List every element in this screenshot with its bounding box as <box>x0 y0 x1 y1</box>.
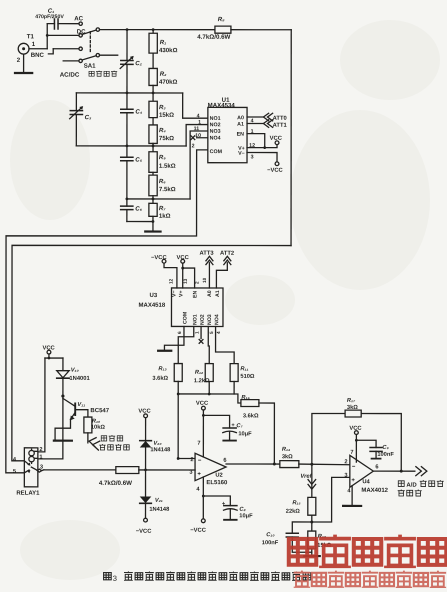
label AC/DC coupling switch <box>60 71 117 79</box>
svg-text:NO4: NO4 <box>214 314 220 325</box>
svg-text:R₃: R₃ <box>159 104 166 111</box>
svg-text:BC547: BC547 <box>90 408 109 414</box>
wire U1 V- to -VCC <box>247 153 277 162</box>
svg-text:U3: U3 <box>149 293 157 299</box>
node pin4/C8 <box>202 495 205 498</box>
resistor R2 <box>149 68 157 93</box>
svg-text:3kΩ: 3kΩ <box>347 405 358 411</box>
wire U1 EN to VCC <box>247 134 265 148</box>
svg-text:R₆: R₆ <box>159 178 166 185</box>
resistor R8 <box>215 26 291 33</box>
svg-text:V+: V+ <box>178 290 184 297</box>
svg-text:T1: T1 <box>27 33 35 40</box>
U1 pin names <box>210 115 245 157</box>
svg-text:ATT3: ATT3 <box>200 251 215 257</box>
wire U3 NO4 to R11 <box>216 326 235 363</box>
svg-text:3.6kΩ: 3.6kΩ <box>152 376 168 382</box>
wire VCC to U3 EN <box>183 268 195 288</box>
watermark big red text <box>289 535 446 567</box>
svg-text:430kΩ: 430kΩ <box>159 47 178 54</box>
node rail2-ladder <box>152 145 155 148</box>
power VCC (U2 pin 7) <box>201 406 205 457</box>
wire inverting input (U2 pin 2) <box>178 394 195 459</box>
capacitor C10 <box>286 522 312 552</box>
svg-text:C₁₀: C₁₀ <box>266 532 275 538</box>
ground (ladder) <box>145 222 160 232</box>
svg-text:V₁₀: V₁₀ <box>71 367 80 373</box>
svg-text:A1: A1 <box>215 290 221 297</box>
svg-text:EN: EN <box>237 132 245 138</box>
svg-text:U4: U4 <box>362 479 370 485</box>
svg-text:R₂: R₂ <box>160 71 167 78</box>
svg-text:NO2: NO2 <box>200 314 206 325</box>
svg-text:MAX4518: MAX4518 <box>138 303 165 309</box>
caption figure 3 <box>104 572 311 583</box>
power -VCC (U2 pin 4) <box>201 519 205 523</box>
node rail-R13 <box>177 393 180 396</box>
relay contacts <box>24 461 38 473</box>
svg-text:1: 1 <box>251 129 254 135</box>
resistor R15 <box>308 497 316 515</box>
wire U1 A0 to ATT0 <box>247 113 273 121</box>
svg-text:V−: V− <box>238 151 245 157</box>
capacitor C8 <box>203 496 237 520</box>
svg-text:1.5kΩ: 1.5kΩ <box>159 163 176 170</box>
svg-text:4: 4 <box>216 331 221 334</box>
svg-text:10μF: 10μF <box>239 513 253 519</box>
wire U1 A1 to ATT1 <box>247 120 273 128</box>
wire relay coil pin 1 riser <box>38 396 63 459</box>
svg-text:C₆: C₆ <box>135 206 142 213</box>
connector T1 BNC <box>18 43 29 54</box>
svg-text:22kΩ: 22kΩ <box>286 509 300 515</box>
label relay control signal <box>100 435 130 450</box>
wire relay coil pin 2 riser <box>38 358 45 452</box>
relay coil <box>29 449 38 463</box>
svg-text:NO3: NO3 <box>207 314 213 325</box>
wire R15 to junction <box>311 515 313 522</box>
wire COM bus (outer) <box>6 150 208 473</box>
svg-text:3kΩ: 3kΩ <box>282 454 293 460</box>
node R14/R17/Vref <box>310 463 313 466</box>
svg-text:R₁₅: R₁₅ <box>292 500 301 506</box>
wire gain rail <box>178 381 241 403</box>
svg-text:6: 6 <box>223 458 226 464</box>
wire rail R4/R5 junction <box>76 145 186 147</box>
svg-text:R₁₁: R₁₁ <box>240 366 248 372</box>
capacitor C3 (variable) <box>70 93 84 146</box>
svg-text:RELAY1: RELAY1 <box>16 491 40 497</box>
node rail3-caps <box>125 198 128 201</box>
capacitor C2 (variable) <box>120 30 134 69</box>
svg-text:A/D: A/D <box>406 483 417 489</box>
svg-text:3.6kΩ: 3.6kΩ <box>243 413 259 419</box>
transistor VT1 BC547 <box>55 398 75 439</box>
svg-text:NO3: NO3 <box>210 129 221 135</box>
svg-text:15kΩ: 15kΩ <box>159 112 174 119</box>
power -VCC (U3) <box>162 259 166 263</box>
wire U2 output <box>226 463 280 465</box>
node rail1-ladder <box>152 92 155 95</box>
node rail1-caps <box>126 92 129 95</box>
svg-text:C₃: C₃ <box>85 114 92 121</box>
U4 pin numbers <box>344 450 378 495</box>
svg-text:ATT0: ATT0 <box>273 116 287 122</box>
svg-text:VCC: VCC <box>177 255 190 261</box>
svg-text:3: 3 <box>344 473 347 479</box>
svg-text:R₅: R₅ <box>159 154 166 161</box>
wire attenuated bus (inner) <box>12 245 291 461</box>
wire base <box>75 410 88 417</box>
svg-text:12: 12 <box>249 143 255 149</box>
resistor R9 <box>116 467 195 474</box>
power VCC (VD2) <box>144 414 148 441</box>
U2 pin numbers <box>189 441 226 493</box>
svg-text:4.7kΩ/0.6W: 4.7kΩ/0.6W <box>99 480 132 487</box>
resistor R12 <box>205 364 213 382</box>
ground (BNC pin 2) <box>15 54 32 73</box>
power VCC (U4 pin 7) <box>354 431 358 462</box>
svg-text:510Ω: 510Ω <box>240 374 254 380</box>
svg-text:2: 2 <box>195 281 200 284</box>
svg-text:1: 1 <box>194 331 199 334</box>
resistor R13 <box>174 364 182 382</box>
capacitor C1 <box>47 19 79 29</box>
node EN/V+ <box>263 146 266 149</box>
wire -VCC to U3 V- pin 12 <box>164 263 177 288</box>
wire feedback R17 <box>312 413 401 471</box>
svg-text:+: + <box>197 472 201 478</box>
svg-text:V₁₁: V₁₁ <box>77 402 85 408</box>
node VCC/C7 <box>202 414 205 417</box>
U3 pin numbers <box>168 277 221 334</box>
capacitor C4 <box>121 93 133 146</box>
resistor R5 <box>149 146 157 175</box>
svg-text:4: 4 <box>251 118 254 124</box>
wire R8 down right side <box>290 30 292 246</box>
svg-text:1N4148: 1N4148 <box>150 447 170 453</box>
svg-text:3: 3 <box>251 154 254 160</box>
svg-text:75kΩ: 75kΩ <box>159 135 174 142</box>
wire signal line relay to U2 pin 3 <box>44 469 116 471</box>
svg-text:2: 2 <box>39 447 42 453</box>
svg-text:−: − <box>198 458 202 464</box>
svg-text:VCC: VCC <box>42 346 55 352</box>
arrow to A/D <box>416 467 427 476</box>
power VCC (U3) <box>181 259 185 263</box>
svg-text:10kΩ: 10kΩ <box>91 425 105 431</box>
wire VCC rail driver <box>45 357 63 359</box>
resistor R7 <box>149 199 157 222</box>
resistor R4 <box>149 125 157 146</box>
node collector <box>61 394 64 397</box>
svg-text:AC/DC: AC/DC <box>60 72 80 79</box>
svg-text:11: 11 <box>194 126 200 132</box>
svg-text:U2: U2 <box>215 473 222 479</box>
svg-text:2: 2 <box>192 143 195 149</box>
svg-text:COM: COM <box>182 312 188 324</box>
ground (U3 COM) <box>158 350 171 352</box>
capacitor C7 <box>203 415 236 440</box>
switch SA1 pole 2 <box>48 32 117 63</box>
svg-text:R₁₇: R₁₇ <box>347 398 356 404</box>
node pin2 corner <box>177 457 180 460</box>
svg-text:AC: AC <box>74 15 83 22</box>
svg-text:3: 3 <box>113 574 117 583</box>
svg-text:R₄: R₄ <box>159 127 166 134</box>
resistor R10 <box>84 417 92 443</box>
relay RELAY1 box <box>24 448 38 487</box>
node bus-R1 <box>152 28 155 31</box>
svg-text:EN: EN <box>192 291 198 298</box>
resistor R3 <box>149 93 157 125</box>
node ladder bottom <box>152 220 155 223</box>
ground (VT1 emitter) <box>54 440 72 442</box>
watermark small red text <box>295 571 446 588</box>
wire U2 pin 4 to -VCC <box>202 477 204 519</box>
svg-text:6: 6 <box>177 331 182 334</box>
svg-text:DC: DC <box>77 28 86 35</box>
wire C2 to node <box>126 64 128 93</box>
node bus-C2 <box>126 28 129 31</box>
svg-text:7: 7 <box>350 450 353 456</box>
svg-text:R₁₃: R₁₃ <box>158 366 166 372</box>
wire input node vertical <box>46 24 48 49</box>
power -VCC (VD3) <box>144 518 148 522</box>
svg-text:Vref: Vref <box>300 474 312 480</box>
svg-text:1: 1 <box>39 455 42 461</box>
svg-text:BNC: BNC <box>31 52 45 59</box>
svg-text:NO1: NO1 <box>192 314 198 325</box>
mux U3 MAX4518 box <box>171 288 223 327</box>
svg-text:MAX4012: MAX4012 <box>361 488 388 494</box>
svg-text:−VCC: −VCC <box>151 255 167 261</box>
node VCC driver <box>48 357 51 360</box>
node rail-R12 <box>208 393 211 396</box>
svg-text:7.5kΩ: 7.5kΩ <box>159 186 176 193</box>
wire Vref arrow <box>308 464 316 497</box>
svg-text:3: 3 <box>40 465 43 471</box>
svg-text:R₁₄: R₁₄ <box>282 447 291 453</box>
node VCC/C9 <box>355 439 358 442</box>
power VCC (relay driver) <box>47 350 51 358</box>
resistor R16 (divider 15k) <box>308 522 316 552</box>
resistor R16 (feedback) <box>241 400 275 464</box>
node junction <box>46 34 49 37</box>
wire U3 NO3 to R12 <box>208 326 209 363</box>
resistor R14 <box>280 461 350 468</box>
svg-text:100nF: 100nF <box>262 540 279 546</box>
svg-text:12: 12 <box>169 278 174 284</box>
diode VD3 1N4148 <box>140 470 152 518</box>
capacitor C5 <box>121 146 133 199</box>
svg-text:5: 5 <box>13 469 16 475</box>
wire junction to U4 pin 3 <box>312 477 350 522</box>
relay pin numbers <box>13 447 43 475</box>
svg-text:R₁: R₁ <box>160 39 167 46</box>
svg-text:2: 2 <box>344 459 347 465</box>
svg-text:R₁₀: R₁₀ <box>92 419 101 425</box>
node U2out/R16 <box>273 463 276 466</box>
svg-text:COM: COM <box>210 149 223 155</box>
svg-text:C₉: C₉ <box>382 445 389 451</box>
svg-text:R₁₂: R₁₂ <box>195 370 204 376</box>
resistor R6 <box>149 175 157 199</box>
arrow relay control input <box>88 437 100 450</box>
wire rail R2/R3 junction <box>76 92 182 94</box>
svg-text:A0: A0 <box>237 115 244 121</box>
svg-text:1: 1 <box>198 120 201 126</box>
op-amp U4 MAX4012 <box>350 455 374 487</box>
wire U4 pin 4 to ground <box>351 486 353 505</box>
svg-text:6: 6 <box>375 464 378 470</box>
wire U4 output <box>373 470 414 472</box>
svg-text:1N4148: 1N4148 <box>149 507 169 513</box>
svg-text:R₁₆: R₁₆ <box>241 395 250 401</box>
svg-text:−VCC: −VCC <box>190 528 206 534</box>
ground (divider) <box>304 552 320 556</box>
svg-text:7: 7 <box>197 441 200 447</box>
svg-text:NO2: NO2 <box>210 122 221 128</box>
resistor R11 <box>230 364 238 382</box>
svg-text:C₄: C₄ <box>135 109 142 116</box>
svg-text:+: + <box>351 478 355 484</box>
svg-text:−VCC: −VCC <box>136 529 152 535</box>
svg-text:A1: A1 <box>237 122 244 128</box>
wire VCC to U3 V+ <box>182 263 184 288</box>
node rail3-ladder <box>152 198 155 201</box>
wire ATT3 to U3 A0 <box>206 256 213 288</box>
svg-text:1.2kΩ: 1.2kΩ <box>194 378 210 384</box>
wire NO2 tap <box>186 125 208 146</box>
wire U3 COM to ground <box>164 326 184 349</box>
capacitor C6 <box>121 199 153 222</box>
svg-text:ATT1: ATT1 <box>273 123 288 129</box>
resistor R1 <box>149 30 157 69</box>
wire NO1 tap <box>183 93 208 118</box>
svg-text:NO1: NO1 <box>210 116 221 122</box>
svg-text:10: 10 <box>195 133 201 139</box>
svg-text:R₇: R₇ <box>159 205 166 212</box>
svg-text:NO4: NO4 <box>210 135 221 141</box>
svg-text:100nF: 100nF <box>377 452 394 458</box>
svg-text:EL5160: EL5160 <box>206 480 228 486</box>
wire U1 V+ to VCC <box>247 145 277 148</box>
svg-text:A0: A0 <box>207 290 213 297</box>
svg-text:C₈: C₈ <box>239 507 246 513</box>
svg-text:3: 3 <box>189 470 192 476</box>
svg-text:V−: V− <box>171 290 177 297</box>
svg-text:VCC: VCC <box>349 426 362 432</box>
svg-text:1kΩ: 1kΩ <box>159 213 171 220</box>
node VCC/EN (U3) <box>181 267 184 270</box>
svg-text:10: 10 <box>202 277 207 283</box>
svg-text:4.7kΩ/0.6W: 4.7kΩ/0.6W <box>197 34 230 41</box>
svg-text:−: − <box>352 464 356 470</box>
svg-text:470kΩ: 470kΩ <box>159 79 178 86</box>
svg-text:5: 5 <box>209 331 214 334</box>
svg-text:MAX4534: MAX4534 <box>208 102 236 109</box>
svg-text:470pF/250V: 470pF/250V <box>35 14 64 20</box>
svg-text:C₇: C₇ <box>236 423 243 429</box>
capacitor C9 <box>356 440 382 458</box>
node output/feedback <box>400 470 403 473</box>
svg-text:VCC: VCC <box>196 401 209 407</box>
power VCC (U1) <box>275 141 279 145</box>
diode VD2 1N4148 <box>140 441 152 470</box>
svg-text:V₂₁: V₂₁ <box>155 498 163 504</box>
wire top bus <box>100 29 215 31</box>
wire BNC to node <box>29 48 47 50</box>
node rail2-caps <box>126 145 129 148</box>
svg-text:C₂: C₂ <box>135 60 142 67</box>
svg-text:10μF: 10μF <box>238 431 252 437</box>
wire ATT2 to U3 A1 <box>216 256 230 288</box>
label to A/D converter input <box>398 480 443 496</box>
svg-text:C₅: C₅ <box>135 157 142 164</box>
wire U3 NO1 to R13 <box>178 326 194 363</box>
svg-text:−VCC: −VCC <box>267 168 283 174</box>
resistor R17 <box>345 410 361 417</box>
wire rail R6/R7 junction <box>127 198 190 200</box>
svg-text:ATT2: ATT2 <box>220 251 234 257</box>
svg-text:VCC: VCC <box>138 409 151 415</box>
power -VCC (U1) <box>275 162 279 166</box>
switch SA1 pole 1 contacts AC/DC <box>47 22 99 37</box>
wire NO3 tap <box>190 131 208 199</box>
svg-text:4: 4 <box>197 113 200 119</box>
svg-text:VCC: VCC <box>270 136 283 142</box>
svg-text:13: 13 <box>183 278 188 284</box>
svg-text:1N4001: 1N4001 <box>69 376 90 382</box>
svg-text:SA1: SA1 <box>84 63 96 70</box>
op-amp U2 EL5160 <box>195 453 226 480</box>
relay pin 3 output <box>37 469 44 472</box>
node Vref divider <box>310 520 313 523</box>
op-amp/mux U1 MAX4534 box <box>208 107 247 162</box>
diode VD1 1N4001 <box>57 358 69 396</box>
svg-text:2: 2 <box>190 457 193 463</box>
ground (U4) <box>343 505 361 507</box>
U1 pin numbers <box>192 113 255 160</box>
U3 rotated pin names <box>171 290 221 325</box>
wire NO4 stub (NC) <box>191 136 208 140</box>
node VD2-signal <box>144 469 147 472</box>
wire U3 NO2 stub (NC) <box>199 326 203 343</box>
svg-text:V₂₀: V₂₀ <box>153 441 162 447</box>
svg-text:R₈: R₈ <box>218 16 225 23</box>
